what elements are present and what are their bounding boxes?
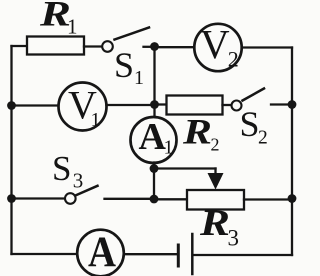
node junction right R3 row	[288, 194, 297, 203]
svg-text:S: S	[240, 104, 260, 144]
node junction right S2 row	[288, 100, 297, 109]
switch S2 contact circle	[232, 101, 242, 111]
wire node to V2	[155, 46, 195, 48]
switch S1 contact circle	[102, 41, 113, 52]
rheostat wiper arrow shaft	[214, 169, 216, 176]
svg-text:1: 1	[91, 109, 101, 131]
svg-text:V: V	[200, 21, 230, 67]
voltmeter V2 circle	[194, 24, 241, 71]
wire battery to right rail	[194, 254, 293, 256]
svg-text:3: 3	[228, 226, 240, 251]
svg-text:S: S	[114, 45, 134, 85]
wire node to R2	[155, 103, 167, 105]
wire R2 to S2	[223, 104, 232, 106]
switch S1 blade	[115, 28, 150, 40]
battery short plate	[177, 245, 180, 266]
switch S3 blade	[77, 186, 98, 195]
svg-text:1: 1	[164, 137, 174, 159]
ammeter A circle	[77, 230, 124, 276]
wire left junction to V1	[12, 104, 59, 106]
battery long plate	[191, 234, 194, 274]
wire S3 to node	[105, 198, 155, 200]
svg-text:1: 1	[67, 15, 78, 39]
switch S3 contact circle	[65, 193, 76, 204]
switch S2 blade	[243, 89, 265, 101]
node junction left S3 row	[7, 194, 16, 203]
svg-text:R: R	[199, 203, 230, 244]
rheostat R3 box	[187, 190, 244, 210]
wire wiper horizontal	[154, 167, 216, 169]
svg-text:S: S	[52, 149, 71, 188]
wire S2 to right rail	[271, 103, 292, 105]
resistor R2	[167, 96, 223, 115]
wire node to R3	[154, 198, 187, 200]
node junction center R3 row	[150, 195, 159, 204]
wire bottom left	[12, 253, 79, 255]
rheostat wiper arrowhead	[208, 173, 224, 190]
svg-text:R: R	[182, 112, 212, 152]
wire R1 to S1	[84, 45, 101, 47]
svg-text:3: 3	[73, 169, 84, 193]
wire center vertical bottom	[153, 163, 155, 200]
node junction left V1 row	[7, 101, 16, 110]
voltmeter V1 circle	[59, 83, 107, 131]
wire S3 row left	[12, 197, 66, 199]
node junction top center	[150, 42, 159, 51]
svg-text:2: 2	[211, 135, 220, 155]
wire V2 to right rail	[242, 46, 292, 48]
svg-text:A: A	[88, 229, 116, 276]
node junction center R2 row	[150, 100, 159, 109]
resistor R1	[27, 37, 84, 55]
svg-text:2: 2	[258, 128, 268, 149]
wire V1 to center node	[107, 104, 155, 106]
svg-text:2: 2	[228, 46, 239, 71]
wire left rail	[10, 46, 12, 254]
wire center vertical top	[153, 47, 155, 119]
svg-text:1: 1	[134, 67, 144, 89]
ammeter A1 circle	[131, 117, 177, 163]
wire right rail	[291, 48, 293, 256]
wire R3 to right rail	[244, 198, 292, 200]
svg-text:A: A	[139, 116, 167, 158]
node junction A1 bottom	[150, 164, 159, 173]
wire top-left to R1	[12, 45, 28, 47]
wire S1 to node	[144, 46, 155, 48]
wire A to battery	[124, 253, 177, 255]
